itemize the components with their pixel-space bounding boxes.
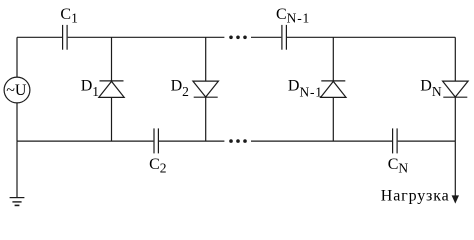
svg-text:CN-1: CN-1	[276, 6, 310, 26]
node dots top ellipsis	[229, 36, 247, 40]
diode D2	[193, 81, 219, 97]
capacitor C1	[63, 25, 68, 50]
wire left vertical source top	[16, 37, 18, 77]
diode DN	[443, 81, 469, 97]
wire top segment C(N-1) to right corner	[287, 36, 455, 38]
wire top segment dots to C(N-1)	[251, 36, 281, 38]
wire left vertical to ground	[16, 141, 18, 198]
wire bottom segment left (ground node to C2)	[17, 140, 153, 142]
wire DN-1 branch top	[332, 37, 334, 81]
wire load output vertical	[454, 141, 456, 196]
diode D1	[99, 81, 124, 98]
svg-text:CN: CN	[388, 156, 409, 176]
diode DN-1	[321, 81, 346, 98]
svg-text:C2: C2	[149, 156, 166, 176]
svg-text:D2: D2	[171, 78, 189, 99]
wire D2 branch bottom	[205, 97, 207, 141]
wire bottom segment C2 to dots	[159, 140, 224, 142]
capacitor CN-1	[282, 25, 287, 50]
wire DN to bottom wire	[454, 97, 456, 141]
load arrow head	[452, 195, 459, 203]
svg-text:C1: C1	[60, 6, 77, 26]
svg-text:~U: ~U	[6, 82, 27, 99]
wire DN-1 branch bottom	[332, 97, 334, 141]
svg-text:DN-1: DN-1	[288, 78, 323, 100]
wire top segment left (source to C1)	[17, 36, 62, 38]
wire D1 branch bottom	[111, 97, 113, 141]
ground	[10, 198, 25, 206]
wire bottom segment CN to right	[398, 140, 456, 142]
wire left vertical source bottom	[16, 103, 18, 141]
svg-text:D1: D1	[81, 78, 99, 100]
capacitor C2	[154, 128, 158, 153]
capacitor CN	[393, 128, 398, 153]
AC source U circle	[4, 77, 30, 103]
svg-text:DN: DN	[420, 78, 442, 100]
wire D1 branch top	[111, 37, 113, 81]
node dots bottom ellipsis	[229, 139, 247, 143]
svg-text:Нагрузка: Нагрузка	[381, 187, 450, 204]
wire top segment C1 to dots	[68, 36, 225, 38]
wire bottom segment dots to CN	[251, 140, 392, 142]
wire D2 branch top	[205, 37, 207, 81]
wire DN branch top (right edge)	[454, 37, 456, 81]
